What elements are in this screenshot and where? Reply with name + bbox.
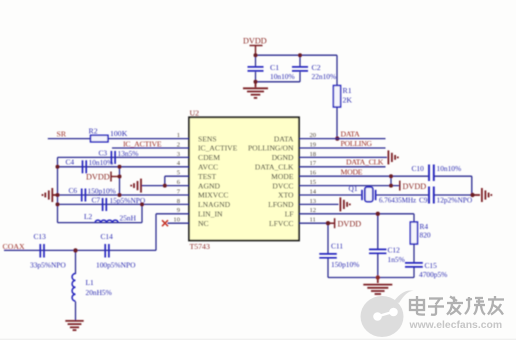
svg-text:XTO: XTO — [278, 191, 294, 200]
svg-text:2: 2 — [177, 141, 180, 148]
svg-text:DGND: DGND — [272, 153, 294, 162]
svg-text:1: 1 — [177, 132, 180, 139]
svg-text:DATA_CLK: DATA_CLK — [255, 163, 294, 172]
svg-text:DVDD: DVDD — [338, 219, 362, 228]
svg-text:C14: C14 — [101, 232, 114, 241]
svg-text:10n10%: 10n10% — [270, 72, 295, 81]
svg-text:TEST: TEST — [198, 172, 217, 181]
svg-text:DATA_CLK: DATA_CLK — [346, 158, 384, 167]
svg-text:13n5%: 13n5% — [118, 149, 139, 158]
svg-text:LIN_IN: LIN_IN — [198, 210, 223, 219]
svg-text:10n10%: 10n10% — [89, 158, 114, 167]
svg-text:U2: U2 — [190, 109, 200, 118]
svg-text:LFGND: LFGND — [268, 200, 294, 209]
svg-text:820: 820 — [420, 231, 431, 240]
svg-text:14: 14 — [310, 188, 317, 195]
svg-text:LFVCC: LFVCC — [269, 219, 293, 228]
svg-text:6.76435MHz: 6.76435MHz — [379, 197, 416, 205]
svg-text:150p10%: 150p10% — [331, 260, 359, 269]
svg-text:POLLING: POLLING — [341, 139, 373, 148]
svg-text:C6: C6 — [69, 186, 78, 195]
svg-text:R2: R2 — [89, 126, 98, 135]
svg-text:C10: C10 — [412, 164, 425, 173]
svg-text:17: 17 — [310, 160, 317, 167]
svg-text:DVDD: DVDD — [86, 173, 110, 182]
svg-text:SR: SR — [57, 130, 67, 139]
svg-text:COAX: COAX — [3, 242, 25, 251]
svg-text:C12: C12 — [388, 245, 401, 254]
svg-text:MODE: MODE — [271, 172, 294, 181]
svg-text:7: 7 — [177, 188, 181, 195]
svg-text:19: 19 — [310, 141, 317, 148]
svg-text:20: 20 — [310, 132, 317, 139]
svg-text:DATA: DATA — [274, 134, 294, 143]
svg-text:IC_ACTIVE: IC_ACTIVE — [198, 144, 238, 153]
svg-text:4: 4 — [177, 160, 181, 167]
svg-text:NC: NC — [198, 219, 209, 228]
svg-text:12: 12 — [310, 207, 317, 214]
svg-text:C9: C9 — [419, 196, 428, 205]
svg-text:6: 6 — [177, 179, 181, 186]
svg-text:12p2%NPO: 12p2%NPO — [437, 196, 473, 205]
svg-text:DATA: DATA — [341, 129, 361, 138]
svg-text:15: 15 — [310, 179, 317, 186]
svg-text:www.elecfans.com: www.elecfans.com — [409, 320, 503, 331]
svg-text:C4: C4 — [66, 158, 75, 167]
svg-text:22n10%: 22n10% — [312, 72, 337, 81]
svg-text:L2: L2 — [84, 212, 93, 221]
svg-text:10n10%: 10n10% — [437, 164, 462, 173]
svg-text:C2: C2 — [312, 63, 321, 72]
svg-text:C15: C15 — [425, 261, 438, 270]
svg-text:CDEM: CDEM — [198, 153, 220, 162]
svg-text:SENS: SENS — [198, 134, 217, 143]
svg-text:100K: 100K — [110, 129, 128, 138]
svg-text:C7: C7 — [92, 196, 101, 205]
svg-text:DVDD: DVDD — [403, 182, 427, 191]
svg-text:LF: LF — [285, 210, 294, 219]
svg-text:AVCC: AVCC — [198, 163, 218, 172]
svg-text:9: 9 — [177, 207, 181, 214]
svg-text:C13: C13 — [34, 232, 47, 241]
svg-text:T5743: T5743 — [190, 242, 210, 251]
svg-text:C3: C3 — [99, 148, 108, 157]
svg-text:POLLING/ON: POLLING/ON — [248, 144, 294, 153]
svg-text:LNAGND: LNAGND — [198, 200, 231, 209]
svg-text:DVDD: DVDD — [243, 37, 267, 46]
svg-text:20nH5%: 20nH5% — [86, 288, 112, 297]
svg-text:L1: L1 — [86, 278, 95, 287]
svg-text:25nH: 25nH — [120, 214, 137, 223]
svg-text:AGND: AGND — [198, 181, 220, 190]
svg-text:IC_ACTIVE: IC_ACTIVE — [123, 140, 162, 149]
svg-text:DVCC: DVCC — [272, 181, 293, 190]
svg-text:4700p5%: 4700p5% — [419, 270, 447, 279]
svg-text:1n5%: 1n5% — [388, 255, 405, 264]
svg-text:150p10%: 150p10% — [88, 186, 116, 195]
svg-text:2K: 2K — [343, 96, 353, 105]
svg-text:Q1: Q1 — [349, 184, 358, 193]
svg-text:R1: R1 — [343, 86, 352, 95]
svg-text:MODE: MODE — [341, 167, 363, 176]
svg-text:33p5%NPO: 33p5%NPO — [30, 261, 66, 270]
svg-text:100p5%NPO: 100p5%NPO — [96, 261, 136, 270]
svg-text:C1: C1 — [270, 63, 279, 72]
svg-text:C11: C11 — [331, 242, 343, 251]
svg-text:MIXVCC: MIXVCC — [198, 191, 228, 200]
